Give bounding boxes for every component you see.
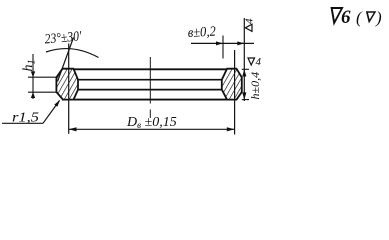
svg-text:r1,5: r1,5 <box>12 111 39 126</box>
в left arrow <box>216 41 223 45</box>
center line (dash-dot axis) <box>149 57 151 104</box>
svg-text:6: 6 <box>341 7 351 28</box>
h top extension <box>242 68 249 70</box>
general surface mark ∇6 (∇) top right <box>329 7 382 28</box>
ring lower inner chamfer line <box>76 89 223 91</box>
h bottom arrow <box>242 92 246 99</box>
h dimension line <box>243 18 245 101</box>
left ring cross-section (hatched) <box>56 69 78 100</box>
svg-text:h±0,4: h±0,4 <box>248 72 262 100</box>
h1 lower extension line <box>28 91 56 93</box>
ring top surface line <box>62 68 237 70</box>
h1 upper extension line <box>28 76 56 78</box>
h1 bottom arrow <box>31 92 35 98</box>
ring bottom surface line <box>62 99 237 101</box>
svg-text:4: 4 <box>256 56 262 68</box>
h1 dimension line <box>32 54 34 99</box>
h1 top arrow <box>31 71 35 77</box>
vertical reference / Dв left extension line <box>68 44 70 134</box>
в (width) dimension line <box>191 42 254 44</box>
svg-text:4: 4 <box>244 18 256 24</box>
r1,5 leader shelf <box>2 122 43 124</box>
surface mark ∇4 rotated flag on h line <box>244 18 256 31</box>
svg-text:Dв ±0,15: Dв ±0,15 <box>126 115 177 130</box>
right ring cross-section (hatched) <box>222 69 242 100</box>
Dв right extension line <box>234 50 236 135</box>
r1,5 leader diagonal <box>43 101 60 124</box>
svg-text:): ) <box>375 8 382 27</box>
Dв left arrow <box>69 127 77 131</box>
chamfer edge extended (23 deg line) <box>58 38 74 82</box>
r1,5 leader arrow <box>54 100 60 107</box>
angle dimension arc <box>46 49 99 58</box>
в left extension line <box>222 36 224 59</box>
h bottom extension <box>242 99 249 101</box>
svg-text:в±0,2: в±0,2 <box>187 25 216 41</box>
surface mark ∇4 (horizontal, right) <box>248 56 262 68</box>
Dв right arrow <box>227 127 235 131</box>
ring upper inner chamfer line <box>76 79 223 81</box>
в right arrow <box>237 41 244 45</box>
Dв dimension line <box>69 128 235 130</box>
h top arrow <box>242 69 246 76</box>
